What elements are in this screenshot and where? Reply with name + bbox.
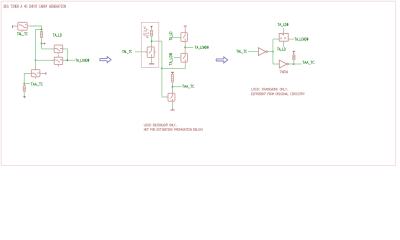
switch SV2 bbox=[168, 93, 175, 101]
pin S3 left bbox=[52, 59, 54, 61]
no-connect arrow mark bbox=[44, 42, 46, 44]
wire S2 out bbox=[65, 49, 68, 60]
pin S3 bottom bbox=[57, 65, 59, 67]
label TA_LD vertical bbox=[169, 32, 172, 40]
pin SB bottom bbox=[184, 62, 186, 64]
pin S3 top bbox=[57, 55, 59, 57]
pin S4 bottom bbox=[35, 77, 37, 79]
junction J2 bbox=[35, 59, 37, 61]
pin SV1 left bbox=[145, 51, 147, 53]
wire X1 bottom bbox=[282, 43, 284, 47]
pin tick top A bbox=[184, 26, 186, 32]
label TAA_TC left bbox=[31, 83, 43, 86]
junction J4 bbox=[67, 59, 69, 61]
label TAL_TC mid bbox=[122, 50, 132, 53]
pin SV2 left bbox=[166, 96, 168, 98]
label 7404 bbox=[280, 71, 288, 74]
pin S2 bottom bbox=[57, 53, 59, 55]
resistor R4 bbox=[171, 74, 173, 82]
label TAL_TC bbox=[17, 33, 27, 36]
pin SV2 top bbox=[172, 91, 174, 93]
wire R1 bottom bbox=[41, 37, 43, 49]
block arrow A2 bbox=[216, 57, 228, 63]
junction J11 bbox=[293, 63, 295, 65]
pin S4 right with tick bbox=[40, 73, 46, 75]
wire vertical split bbox=[273, 39, 279, 64]
wire SA to SB bbox=[184, 45, 186, 51]
sheet border frame bbox=[1, 1, 395, 165]
switch SA bbox=[181, 33, 188, 42]
label TA_LD by R1 bbox=[53, 34, 62, 37]
pin X1 right bbox=[288, 38, 290, 40]
title text bbox=[4, 5, 66, 8]
junction J9 bbox=[184, 47, 186, 49]
ground G3 bar bbox=[171, 109, 175, 111]
wire R3 bottom bbox=[151, 36, 153, 47]
vertical text R ref bbox=[147, 29, 149, 38]
wire SV2 bottom bbox=[172, 103, 174, 109]
resistor R1 bbox=[40, 31, 42, 37]
component X1 bbox=[279, 33, 288, 41]
resistor R5 bbox=[293, 55, 295, 60]
pin S3 right bbox=[63, 59, 65, 61]
wire J7 stub bbox=[173, 86, 182, 88]
wire to S2 bbox=[42, 48, 55, 50]
junction J3 bbox=[41, 43, 43, 45]
label TA_LD# top right bbox=[278, 23, 289, 26]
pin SB top bbox=[184, 51, 186, 53]
pin SV1 bottom bbox=[151, 57, 153, 59]
wire P1 to R3 bbox=[151, 28, 153, 30]
note right line1 bbox=[251, 88, 287, 91]
pin SV2 bottom bbox=[172, 101, 174, 103]
pin S2 left bbox=[52, 48, 54, 50]
resistor R2 bbox=[23, 86, 25, 91]
junction J8 bbox=[161, 68, 163, 70]
pin S1 bottom bbox=[21, 30, 23, 32]
pin tick input left bbox=[12, 25, 17, 27]
label TA_LD# vertical bbox=[169, 53, 172, 65]
junction J1 bbox=[41, 29, 43, 31]
wire J6 right down bbox=[152, 41, 168, 97]
switch S4 bbox=[31, 70, 40, 77]
wire stub to arrow bbox=[42, 43, 44, 45]
wire R4 bottom bbox=[172, 82, 174, 93]
switch SV1 bbox=[147, 47, 154, 58]
switch S1 bbox=[18, 22, 27, 30]
wire to U1 bbox=[248, 51, 258, 53]
wire S1 out top bbox=[29, 26, 41, 31]
wire SB left stub bbox=[174, 57, 181, 59]
wire long to S3 bbox=[36, 59, 55, 61]
wire X1 top bbox=[282, 28, 284, 32]
junction J7 bbox=[172, 86, 174, 88]
wire to S4 top bbox=[35, 60, 37, 69]
switch SB bbox=[181, 53, 188, 62]
wire label stub bbox=[24, 83, 30, 85]
wire SA left stub bbox=[172, 37, 181, 39]
pin S1 right bbox=[27, 25, 29, 27]
ground G2 bar bbox=[149, 63, 154, 65]
wire SV1 bottom bbox=[151, 59, 153, 63]
switch S2 bbox=[54, 45, 63, 53]
power tick P3 bbox=[293, 51, 296, 55]
wire S4 left down bbox=[24, 74, 29, 86]
label TA_LD right mid bbox=[277, 48, 285, 51]
wire U1 out bbox=[268, 51, 273, 53]
dashed group box bbox=[141, 22, 159, 67]
pin X1 top bbox=[282, 31, 284, 33]
pin SV1 right bbox=[154, 51, 156, 53]
wire J8 right bbox=[162, 64, 185, 68]
wire J9 stub bbox=[185, 46, 193, 48]
wire S3 out bbox=[65, 59, 75, 61]
junction J5 bbox=[23, 83, 25, 85]
note right line2 bbox=[251, 93, 304, 95]
pin S4 top bbox=[35, 68, 37, 70]
label TA_LOAD# right bbox=[295, 38, 309, 41]
wire X1 right bbox=[290, 38, 294, 40]
junction J6 bbox=[151, 40, 153, 42]
label TA_LOAD# left bbox=[76, 59, 90, 62]
pin S2 right bbox=[63, 48, 65, 50]
wire U2 out bbox=[289, 63, 302, 65]
pin SV1 top bbox=[151, 45, 153, 47]
pin X1 bottom bbox=[282, 41, 284, 43]
wire branch left bbox=[36, 29, 42, 60]
block arrow A1 bbox=[100, 57, 111, 63]
power tick P2 bbox=[171, 72, 174, 74]
ground G1 bbox=[23, 96, 26, 98]
junction J10 bbox=[272, 51, 274, 53]
pin SA bottom bbox=[184, 41, 186, 45]
wire R5 bottom bbox=[293, 60, 295, 64]
switch S3 bbox=[54, 57, 63, 64]
inverter U1 bbox=[258, 48, 267, 56]
note left line1 bbox=[144, 124, 176, 127]
resistor R3 bbox=[150, 30, 152, 36]
label TAA_TC right bbox=[303, 61, 315, 64]
wire label to SV1 bbox=[135, 51, 147, 53]
label TAL_TC right bbox=[237, 50, 247, 53]
wire R2 bottom bbox=[23, 91, 25, 96]
vertical text R value bbox=[144, 26, 146, 35]
power tick P1 bbox=[150, 26, 152, 28]
label TA_LOAD# mid bbox=[195, 46, 209, 49]
note left line2 bbox=[144, 128, 203, 130]
label TAA_TC mid bbox=[182, 85, 194, 88]
pin S4 left bbox=[29, 73, 31, 75]
inverter U2 bbox=[279, 60, 288, 68]
